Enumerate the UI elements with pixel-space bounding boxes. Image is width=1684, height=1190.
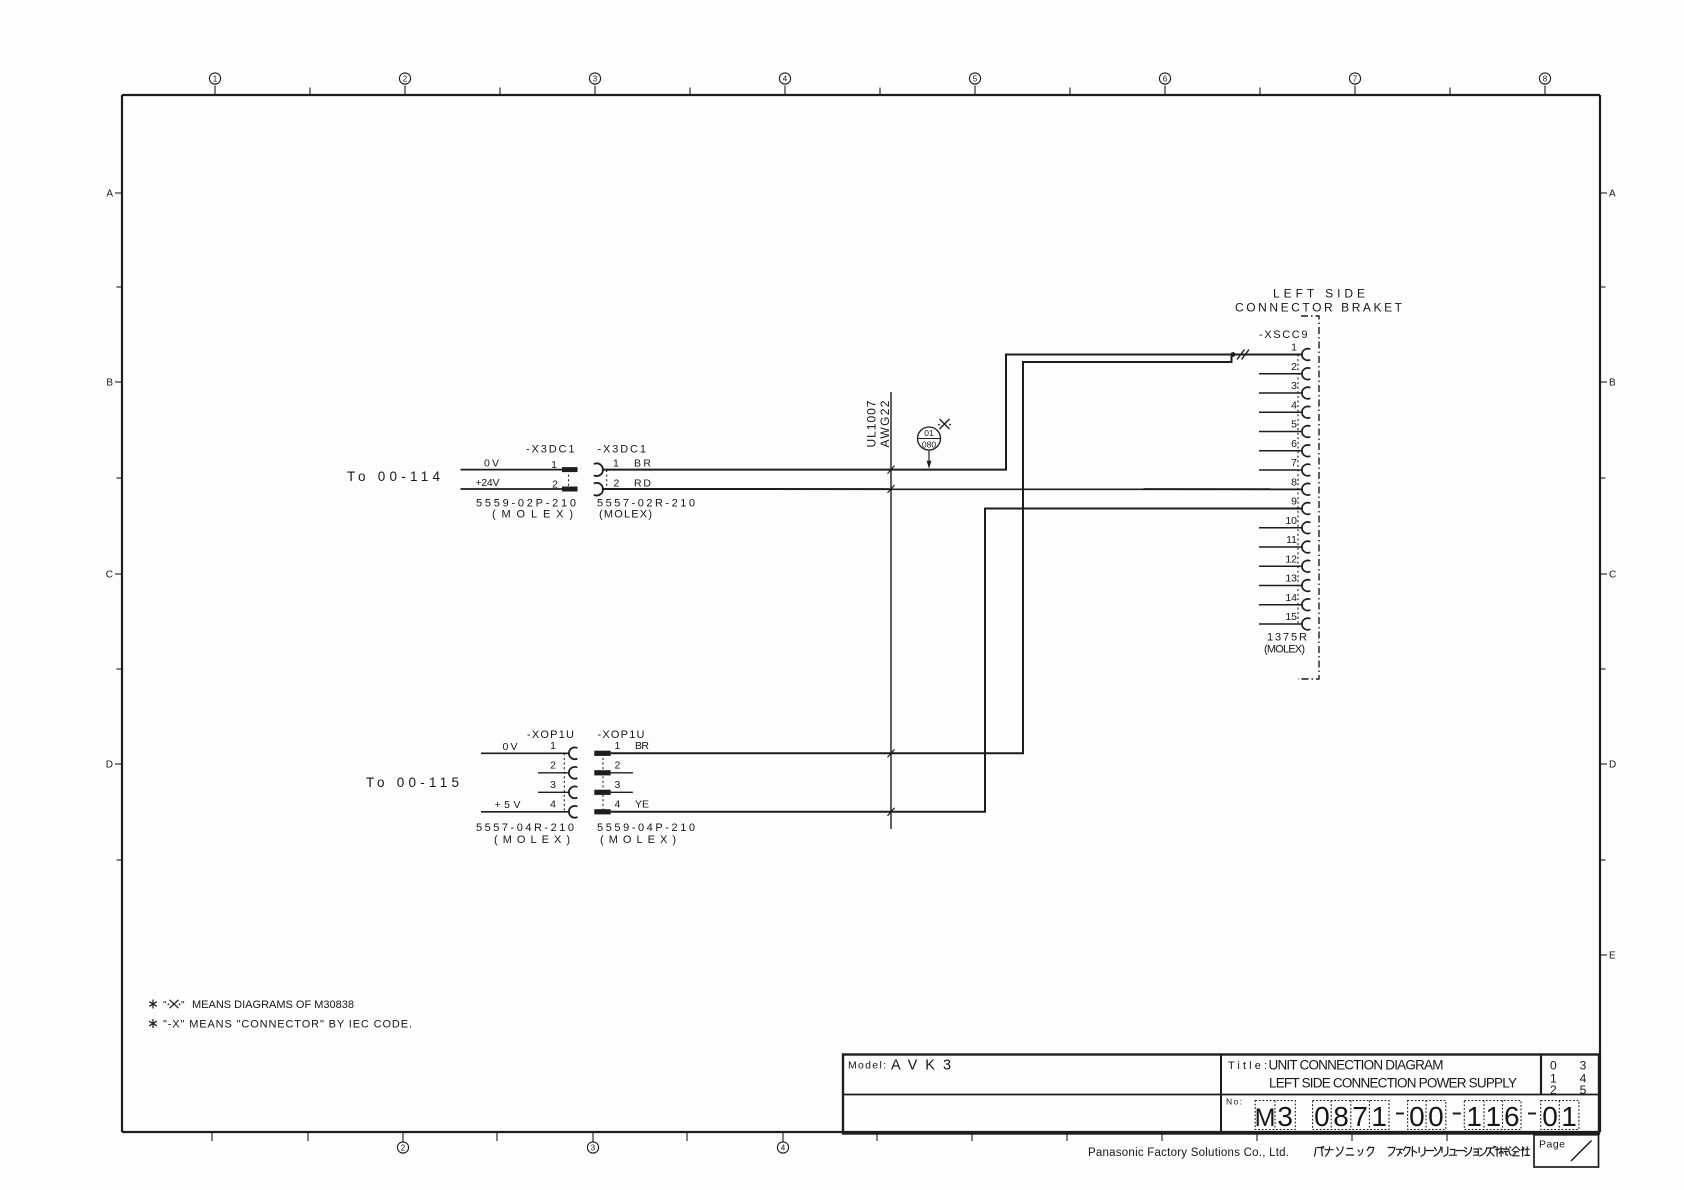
XSCC9 pin 9 [1291,496,1310,515]
company name japanese (katakana strokes) [1315,1146,1530,1156]
svg-text:3: 3 [1291,380,1297,392]
bottom ruler column labels 2-4 [397,1132,788,1153]
svg-text:1: 1 [615,740,621,752]
XSCC9 pin 7 [1259,457,1310,476]
wire crossing tick on BR wire at UL1007 line [888,466,895,474]
svg-text:7: 7 [1291,457,1297,469]
reference mark beside circle [940,419,950,429]
XOP1U receptacle pin 3 lead [538,791,570,793]
svg-text:3: 3 [591,1144,596,1153]
svg-text:1: 1 [1291,342,1297,354]
svg-text:-X3DC1: -X3DC1 [526,444,575,456]
svg-text:+24V: +24V [476,477,500,489]
svg-text:": " [163,1000,167,1011]
wire crossing tick on RD wire at UL1007 line [888,485,895,493]
title block horizontal divider [843,1094,1599,1096]
svg-text:01: 01 [924,428,934,438]
wire BR from X3DC1 pin1 to XSCC9 pin1 [602,355,1303,470]
svg-text:UL1007: UL1007 [865,400,879,447]
drawing number cell 00 [1408,1101,1446,1130]
svg-text:E: E [1609,951,1616,962]
svg-text:5: 5 [1291,419,1297,431]
drawing number M3 0871-00-116-01 [1255,1101,1577,1132]
double slash mark at junction [1237,350,1245,360]
svg-text:M: M [1255,1104,1276,1132]
X3DC1 plug body dotted line [568,470,570,489]
XOP1U plug pin contacts 1-4 [594,751,610,815]
drawing number cell 116 [1464,1101,1521,1130]
drawing number cell M3 [1255,1101,1295,1130]
svg-text:12: 12 [1285,553,1297,565]
UL1007 AWG22 boundary line [890,392,892,829]
svg-text:14: 14 [1285,592,1297,604]
wire 0V to X3DC1 pin 1 [461,469,563,471]
svg-text:RD: RD [634,478,651,490]
XOP1U receptacle body dotted line [563,753,565,812]
XSCC9 pin 12 [1259,553,1310,572]
svg-text:1: 1 [550,740,556,752]
XSCC9 pin 14 [1259,592,1310,611]
svg-text:BR: BR [635,740,649,752]
XSCC9 pin 15 [1259,611,1310,630]
svg-text:UNIT CONNECTION DIAGRAM: UNIT CONNECTION DIAGRAM [1269,1058,1444,1073]
svg-text:(MOLEX): (MOLEX) [494,834,570,846]
svg-text:No:: No: [1226,1097,1242,1107]
wire 0V to XOP1U pin 1 [481,752,570,754]
left ruler row labels A-D [106,189,122,861]
svg-text:AVK3: AVK3 [891,1058,959,1074]
drawing border frame [122,95,1600,1132]
svg-text:6: 6 [1504,1101,1520,1132]
svg-text:2: 2 [1550,1083,1557,1097]
svg-text:2: 2 [615,759,621,771]
svg-text:To 00-114: To 00-114 [347,469,440,484]
drawing number cell 0871 [1313,1101,1389,1130]
drawing number dash 3 [1528,1113,1536,1115]
svg-text:2: 2 [401,1144,406,1153]
svg-text:C: C [106,570,113,581]
svg-text:8: 8 [1291,476,1297,488]
XOP1U plug pin 2 lead [611,772,633,774]
wire +24V to X3DC1 pin 2 [461,488,563,490]
XSCC9 pin 11 [1259,534,1310,553]
svg-text:2: 2 [1291,361,1297,373]
svg-text:D: D [106,760,113,771]
top ruler mid ticks [310,88,1450,96]
svg-text:Panasonic Factory Solutions Co: Panasonic Factory Solutions Co., Ltd. [1088,1147,1289,1159]
svg-text:0: 0 [1428,1101,1444,1132]
svg-text:1: 1 [1371,1101,1387,1132]
wire BR from XOP1U pin1 to junction on XSCC9 pin1 wire [611,355,1232,754]
svg-text:LEFT SIDE: LEFT SIDE [1273,287,1365,301]
svg-text:9: 9 [1291,496,1297,508]
wire crossing tick on XOP1U BR wire at UL1007 line [888,749,895,757]
XOP1U receptacle contact arcs pins 1-4 [569,747,577,817]
svg-text:8: 8 [1333,1101,1349,1132]
svg-text:3: 3 [1277,1101,1293,1132]
X3DC1 receptacle pin 2 contact arc [594,483,603,496]
svg-text:5: 5 [1580,1083,1587,1097]
page slash [1571,1141,1592,1162]
note asterisk 2 [152,1019,154,1028]
XSCC9 pin 5 [1259,419,1310,438]
svg-text:5: 5 [973,75,978,84]
svg-text:2: 2 [552,479,558,491]
svg-text:8: 8 [1543,75,1548,84]
XSCC9 pin 1 [1291,342,1310,361]
XOP1U plug pin number labels [615,740,621,811]
XOP1U plug body dotted line [602,753,604,812]
X3DC1 receptacle pin 1 contact arc [594,463,603,476]
svg-text:3: 3 [593,75,598,84]
connector bracket dash-dot outline [1298,316,1319,679]
svg-text:1: 1 [213,75,218,84]
label AWG22 [878,400,892,447]
svg-text:3: 3 [550,779,556,791]
svg-text:0V: 0V [484,458,499,470]
svg-text:B: B [1609,378,1616,389]
drawing number cell 01 [1541,1101,1579,1130]
svg-text:-XSCC9: -XSCC9 [1259,329,1308,341]
svg-text:B: B [106,378,113,389]
svg-text:1: 1 [1466,1101,1482,1132]
svg-text:6: 6 [1163,75,1168,84]
svg-text:1375R: 1375R [1267,632,1307,644]
svg-text:CONNECTOR BRAKET: CONNECTOR BRAKET [1235,301,1403,315]
XSCC9 body dotted line [1297,355,1299,625]
svg-text:6: 6 [1291,438,1297,450]
svg-text:1: 1 [1486,1101,1502,1132]
svg-text:080: 080 [922,440,936,450]
XSCC9 pin 4 [1259,399,1310,418]
junction dot on XSCC9 pin1 wire [1231,352,1236,357]
svg-text:13: 13 [1285,573,1297,585]
page box [1534,1135,1599,1167]
svg-text:(MOLEX): (MOLEX) [1264,644,1305,656]
right ruler row labels A-E [1600,189,1616,962]
svg-text:4: 4 [550,798,556,810]
svg-text:AWG22: AWG22 [878,400,892,447]
note asterisk 1 [152,1000,154,1009]
svg-text:A: A [106,189,113,200]
svg-text:To 00-115: To 00-115 [366,775,459,790]
svg-text:-X3DC1: -X3DC1 [598,444,647,456]
svg-text:4: 4 [783,75,788,84]
svg-text:Model:: Model: [848,1060,886,1072]
svg-text:Title:: Title: [1228,1060,1267,1072]
svg-text:LEFT SIDE CONNECTION POWER SUP: LEFT SIDE CONNECTION POWER SUPPLY [1269,1076,1517,1091]
XOP1U receptacle pin number labels [550,740,556,811]
wire crossing tick on YE wire at UL1007 line [888,808,895,816]
svg-text:10: 10 [1285,515,1297,527]
title block revision divider [1540,1055,1542,1095]
XSCC9 pin 13 [1259,573,1310,592]
XSCC9 pin 10 [1259,515,1310,534]
XSCC9 pin 8 [1291,476,1310,495]
svg-text:0V: 0V [503,741,518,753]
svg-text:0: 0 [1409,1101,1425,1132]
svg-text:YE: YE [635,798,649,810]
XSCC9 pin 2 [1259,361,1310,380]
svg-text:15: 15 [1285,611,1297,623]
XOP1U plug pin 3 lead [611,791,633,793]
svg-text:0: 0 [1542,1101,1558,1132]
wire YE from XOP1U pin4 to XSCC9 pin9 [611,509,1303,812]
svg-text:5557-04R-210: 5557-04R-210 [476,822,574,834]
title block outer box [843,1055,1599,1134]
svg-text:4: 4 [781,1144,786,1153]
arrow from reference circle to BR wire [928,450,930,465]
bottom ruler ticks [212,1132,1447,1141]
XOP1U receptacle pin 2 lead [538,772,570,774]
svg-text:(MOLEX): (MOLEX) [599,509,652,521]
svg-text:1: 1 [551,459,557,471]
svg-text:4: 4 [615,798,621,810]
svg-text:"-X" MEANS "CONNECTOR" BY IEC: "-X" MEANS "CONNECTOR" BY IEC CODE. [163,1019,412,1031]
svg-text:1: 1 [1561,1101,1577,1132]
XSCC9 pin 6 [1259,438,1310,457]
svg-text:1: 1 [613,458,619,470]
label UL1007 [865,400,879,447]
X3DC1 plug pin 1 contact [562,467,578,472]
svg-text:4: 4 [1291,399,1297,411]
svg-text:3: 3 [615,779,621,791]
X3DC1 plug pin 2 contact [562,487,578,492]
svg-text:A: A [1609,189,1616,200]
drawing number dash 1 [1396,1113,1404,1115]
svg-text:0: 0 [1314,1101,1330,1132]
svg-text:Page: Page [1539,1139,1565,1151]
top ruler column labels 1-8 [209,73,1550,95]
drawing number dash 2 [1453,1113,1461,1115]
svg-text:7: 7 [1353,75,1358,84]
svg-text:BR: BR [634,458,651,470]
svg-text:2: 2 [550,759,556,771]
svg-text:MEANS DIAGRAMS OF M30838: MEANS DIAGRAMS OF M30838 [192,999,354,1011]
title block model/title divider [1220,1055,1222,1134]
svg-text:11: 11 [1286,534,1297,546]
svg-text:": " [181,1000,185,1011]
wire RD from X3DC1 pin2 to XSCC9 pin8 [602,488,1303,490]
X3DC1 receptacle body dotted line [606,470,608,489]
svg-text:+5V: +5V [495,799,521,811]
revision table numbers [1550,1059,1587,1097]
svg-text:5559-04P-210: 5559-04P-210 [597,822,695,834]
svg-text:(MOLEX): (MOLEX) [600,834,676,846]
svg-text:(MOLEX): (MOLEX) [492,509,573,521]
svg-text:7: 7 [1352,1101,1368,1132]
reference circle 01/080 [918,427,941,450]
svg-text:C: C [1609,570,1616,581]
svg-text:2: 2 [403,75,408,84]
wire +5V to XOP1U pin 4 [481,811,570,813]
XSCC9 pin 3 [1259,380,1310,399]
svg-text:2: 2 [614,478,620,490]
svg-text:D: D [1609,760,1616,771]
